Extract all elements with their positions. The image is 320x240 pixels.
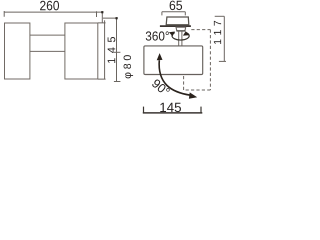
leader bracket corner dot xyxy=(116,17,118,19)
dimension text 145 left view (rotated) xyxy=(108,37,116,63)
dimension line 65 xyxy=(162,12,185,16)
connecting bar xyxy=(30,35,65,51)
swivel post xyxy=(179,31,182,46)
dimension line 145 bottom xyxy=(143,112,203,114)
label 360deg xyxy=(146,31,169,40)
left head outline (front view) xyxy=(5,23,30,79)
canopy (side view) xyxy=(166,17,189,25)
dimension text 145 bottom xyxy=(160,103,181,112)
tick left 145 bottom xyxy=(143,107,145,113)
extension line 117 top xyxy=(215,15,225,17)
phi80 dim tick top xyxy=(114,51,121,53)
90deg arc arrowhead right xyxy=(189,92,197,98)
tick right 145 bottom xyxy=(200,107,202,113)
phi80 dim tick bottom xyxy=(114,81,121,83)
360 arrowhead left xyxy=(169,32,175,37)
label 90deg (rotated) xyxy=(152,79,169,92)
leader bracket to right drawing xyxy=(103,18,117,81)
swivel stem xyxy=(176,27,186,31)
leader corner from 260 dim line down xyxy=(101,12,103,23)
dashed outline right edge xyxy=(209,30,211,90)
dimension text 260 xyxy=(40,1,59,11)
extension line 117 bottom xyxy=(219,60,226,62)
dimension text 65 xyxy=(170,1,182,11)
dashed outline bottom edge xyxy=(184,89,211,91)
dimension line 117 xyxy=(223,16,225,61)
90deg tilt arc xyxy=(159,60,190,95)
extension lines 145 left view xyxy=(98,23,106,79)
dimension text phi80 (rotated) xyxy=(124,55,134,78)
right head outline (front view) xyxy=(65,23,98,79)
360 rotation ellipse arc xyxy=(172,32,189,40)
leader corner dot xyxy=(101,11,103,13)
dimension line 260 xyxy=(4,11,102,17)
dimension line 145 left view xyxy=(104,20,106,79)
dashed outline left edge (below body) xyxy=(183,75,185,90)
dashed outline of body tilted down: top xyxy=(191,29,210,31)
canopy flange xyxy=(160,25,191,27)
90deg arc arrowhead up xyxy=(157,53,163,60)
dimension text 117 (rotated) xyxy=(214,21,221,44)
body outline (side view) xyxy=(144,46,203,75)
swivel stem bottom edge xyxy=(177,30,186,32)
360 arrowhead right xyxy=(183,31,190,35)
